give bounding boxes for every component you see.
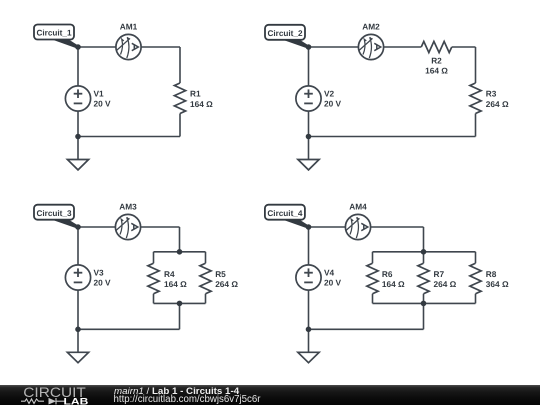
svg-text:164 Ω: 164 Ω [164,279,187,289]
svg-text:AM3: AM3 [119,202,137,212]
svg-text:V2: V2 [324,89,335,99]
svg-text:364 Ω: 364 Ω [486,279,509,289]
svg-text:164 Ω: 164 Ω [190,99,213,109]
svg-text:20 V: 20 V [324,99,342,109]
svg-text:Circuit_4: Circuit_4 [267,209,302,218]
svg-text:Circuit_1: Circuit_1 [36,29,71,38]
svg-text:264 Ω: 264 Ω [434,279,457,289]
svg-text:164 Ω: 164 Ω [425,66,448,76]
svg-text:R8: R8 [486,269,497,279]
svg-text:264 Ω: 264 Ω [486,99,509,109]
svg-text:R7: R7 [434,269,445,279]
svg-text:AM4: AM4 [349,202,367,212]
svg-text:AM2: AM2 [362,22,380,32]
svg-text:R2: R2 [431,55,442,65]
svg-text:Circuit_3: Circuit_3 [36,209,71,218]
svg-text:V3: V3 [94,268,105,278]
svg-text:R1: R1 [190,89,201,99]
svg-text:R5: R5 [215,269,226,279]
svg-text:20 V: 20 V [94,99,112,109]
svg-text:Circuit_2: Circuit_2 [267,29,302,38]
svg-text:R3: R3 [486,89,497,99]
svg-text:R4: R4 [164,269,175,279]
svg-text:20 V: 20 V [324,278,342,288]
svg-text:20 V: 20 V [94,278,112,288]
svg-text:AM1: AM1 [120,22,138,32]
svg-text:V4: V4 [324,268,335,278]
svg-text:LAB: LAB [64,396,89,405]
svg-text:264 Ω: 264 Ω [215,279,238,289]
svg-text:V1: V1 [94,89,105,99]
svg-text:R6: R6 [382,269,393,279]
svg-text:164 Ω: 164 Ω [382,279,405,289]
